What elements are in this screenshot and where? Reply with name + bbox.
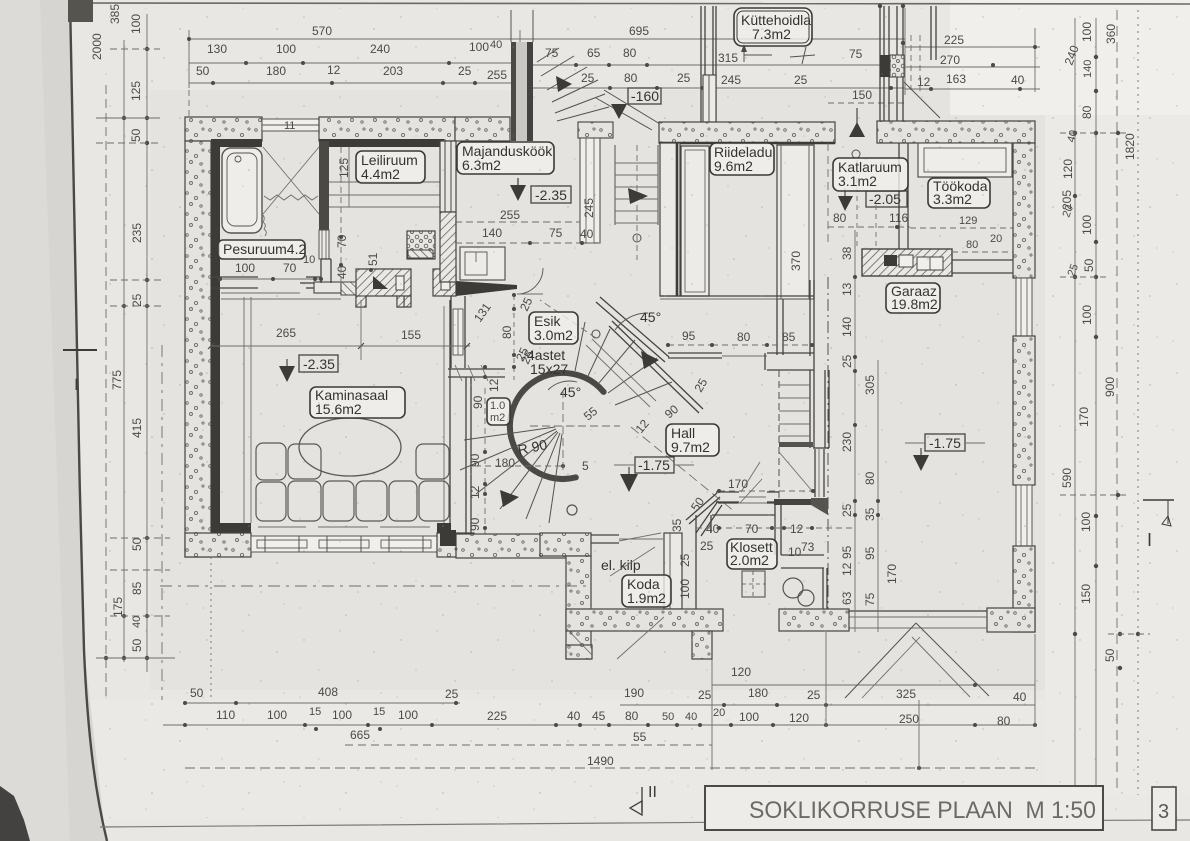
newel circles (567, 505, 577, 515)
center dash cross (530, 425, 620, 427)
closet column (681, 146, 709, 296)
Katlaruum (833, 158, 908, 191)
toilet (742, 571, 765, 597)
door swings (617, 617, 664, 659)
315 arrow mark (744, 54, 772, 56)
left chain lines (105, 85, 107, 700)
niche shelf 1.0m2 (448, 368, 505, 370)
wall Pesuruum bottom / fireplace row (211, 276, 258, 278)
upper flight radial treads (575, 322, 585, 371)
Koda west column (566, 556, 591, 659)
Leiliruum interior bench lines (329, 181, 440, 183)
bottom stipple bands (566, 609, 723, 631)
corridor walls (695, 515, 697, 609)
svg-text:3: 3 (1158, 801, 1169, 823)
bottom wall under spiral (456, 534, 586, 558)
oval table (299, 418, 401, 476)
stair shaft down (778, 370, 780, 499)
entry gap with arrow (849, 122, 865, 137)
Riideladu (710, 143, 774, 175)
sofa left arm (256, 443, 286, 480)
hatched wall left of fireplace (341, 282, 356, 295)
Garaaz (886, 283, 940, 313)
left wall (660, 143, 680, 296)
handrail lines (586, 345, 650, 407)
long west wall of hall (right of Riideladu) (776, 299, 778, 355)
arrow on upper flight (641, 351, 659, 369)
Koda (622, 575, 671, 607)
sauna stove (407, 231, 435, 259)
bottom line (660, 295, 814, 297)
curved wall (510, 373, 604, 479)
diagonal to right corner (604, 90, 660, 124)
vertical connectors (188, 30, 190, 88)
left wall double lines (700, 6, 702, 122)
Kaminasaal right wall (449, 300, 451, 523)
-1.75 marker hall (635, 457, 674, 473)
Koda east wall (664, 533, 682, 609)
wall Pesuruum/Leiliruum (319, 141, 329, 230)
Esik west wall (450, 296, 452, 368)
counter / stove (460, 247, 505, 280)
bottom-left dark corner (0, 786, 30, 841)
shower cross (263, 147, 319, 214)
bottom exterior wall stipple left (185, 533, 251, 557)
bottom wall stipple right block (437, 533, 474, 557)
bottom-right dark corner of Kaminasaal (437, 523, 451, 533)
window in top wall (262, 119, 319, 131)
wall segment at hall NE (668, 352, 722, 354)
Klosett (727, 539, 777, 569)
vertical dim chains right of klosett (854, 230, 856, 632)
top exterior wall stipple left segment (185, 117, 262, 141)
bottom page edge (100, 820, 1190, 827)
45 deg arc label (615, 313, 648, 330)
left page margin shading (0, 0, 106, 841)
stair west wall (465, 377, 467, 534)
Klosett walls (712, 514, 775, 516)
-160 marker top (628, 88, 661, 104)
Leiliruum right wall dark top (440, 141, 456, 212)
boiler hatched block (862, 249, 952, 276)
driveway ramp marks (845, 623, 916, 698)
diagonal jog (696, 501, 718, 533)
1.0 m2 (487, 398, 510, 425)
Kuttehoidla (734, 8, 812, 46)
south wall corner (987, 608, 1035, 632)
hatched block above fireplace row (408, 250, 433, 258)
stair arrow (556, 76, 572, 92)
chain dots (187, 37, 191, 41)
-2.35 marker (531, 186, 571, 203)
Pesuruum (218, 240, 305, 259)
sofa back row (288, 444, 321, 479)
bottom walls of landing (774, 499, 811, 505)
window sill detail lines (258, 526, 306, 528)
sofa seat row (288, 481, 321, 521)
east wall window band with 245 (578, 122, 613, 138)
swing line (779, 452, 813, 492)
Tookoda (928, 178, 990, 208)
door from landing to garage (814, 449, 816, 497)
Kaminasaal interior finish lines (243, 297, 245, 523)
hall south wall (686, 493, 717, 520)
garage door opening (847, 610, 987, 612)
top page edge (70, 3, 1190, 4)
fan treads (537, 48, 559, 62)
east exterior wall segments (1013, 143, 1035, 278)
Hall (666, 424, 719, 456)
Kaminasaal (310, 387, 405, 418)
svg-text:SOKLIKORRUSE PLAAN M 1:50: SOKLIKORRUSE PLAAN M 1:50 (749, 797, 1096, 824)
fireplace (356, 269, 411, 307)
dark inner face of top wall (211, 139, 262, 147)
dark section wall (511, 42, 516, 141)
west boundary dash-dot (827, 277, 829, 610)
bench lines to wall (952, 259, 1013, 261)
section mark I right (1143, 499, 1174, 501)
window bench niche at top (918, 143, 1012, 177)
diagonal wall at 45 (600, 297, 669, 357)
dark wedge wall to Esik (456, 281, 517, 296)
hatched pier right of fireplace (433, 269, 456, 296)
right niche band with 370 (777, 145, 814, 299)
chimney dark block (880, 55, 890, 77)
bottom-left dark corner of Kaminasaal (211, 523, 251, 533)
Leiliruum (356, 151, 425, 183)
chimney flue walls (879, 6, 881, 121)
-1.75 marker (925, 434, 965, 451)
Koda NW stipple block (540, 533, 591, 556)
upper flight boundary wall (diagonal) (612, 321, 703, 409)
door arc (517, 268, 543, 294)
bottom wall windows (3) (251, 536, 437, 552)
dark inner face of left wall (211, 147, 220, 533)
-2.35 marker kaminasaal (299, 355, 338, 372)
sink circles (783, 578, 803, 598)
top wall of Majanduskook (455, 117, 510, 141)
bottom right vertical connectors (711, 634, 713, 770)
Esik (529, 312, 578, 344)
top exterior wall stipple right segment (319, 117, 455, 141)
section mark I left (63, 349, 97, 351)
Leiliruum right wall hatched lower (440, 212, 456, 282)
-2.05 marker (866, 191, 907, 207)
left exterior wall stipple (185, 141, 211, 557)
top wall of right block (877, 121, 1035, 143)
dashed diagonal section line (540, 300, 596, 338)
bathtub (222, 148, 262, 233)
radial treads lower-left (464, 427, 555, 440)
Koda top wall + door (591, 534, 619, 536)
Majanduskook (457, 142, 554, 174)
step jog lines (320, 259, 322, 283)
svg-text:I: I (74, 375, 79, 394)
tread arrow (500, 490, 519, 507)
left page edge line (70, 0, 107, 841)
dividing wall Katlaruum/Tookoda (898, 143, 900, 249)
